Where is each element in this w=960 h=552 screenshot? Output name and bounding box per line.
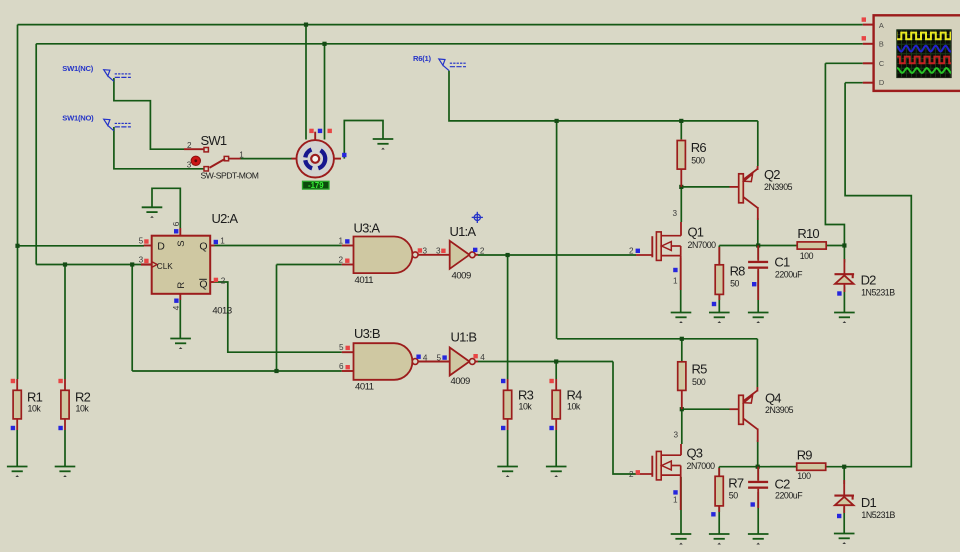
svg-text:10k: 10k [28, 404, 42, 414]
svg-text:500: 500 [691, 156, 705, 166]
svg-text:D2: D2 [861, 272, 877, 287]
svg-text:R8: R8 [730, 264, 746, 279]
svg-text:1: 1 [673, 495, 678, 504]
svg-text:Q: Q [199, 240, 207, 252]
svg-text:4009: 4009 [452, 270, 472, 281]
svg-text:4013: 4013 [212, 305, 232, 316]
svg-text:SW1(NC): SW1(NC) [62, 64, 93, 73]
svg-text:50: 50 [729, 490, 738, 500]
svg-text:1: 1 [239, 151, 244, 160]
svg-text:R4: R4 [567, 388, 583, 403]
svg-text:500: 500 [692, 377, 706, 387]
svg-text:10k: 10k [76, 404, 90, 414]
svg-text:2: 2 [629, 246, 634, 255]
svg-text:R10: R10 [797, 226, 819, 241]
svg-text:5: 5 [339, 343, 344, 352]
svg-text:1N5231B: 1N5231B [861, 510, 895, 520]
svg-text:Q4: Q4 [765, 391, 781, 406]
svg-text:U3:A: U3:A [354, 221, 381, 236]
svg-text:C1: C1 [774, 255, 790, 270]
svg-text:4011: 4011 [355, 275, 374, 286]
svg-text:SW-SPDT-MOM: SW-SPDT-MOM [201, 171, 259, 181]
svg-text:2N3905: 2N3905 [765, 405, 794, 415]
svg-text:R5: R5 [692, 362, 708, 377]
svg-text:50: 50 [730, 279, 739, 289]
svg-text:D: D [879, 78, 884, 87]
svg-text:2: 2 [338, 255, 343, 264]
svg-text:Q3: Q3 [687, 446, 703, 461]
svg-text:Q2: Q2 [764, 167, 780, 182]
svg-text:3: 3 [673, 430, 678, 439]
svg-text:R2: R2 [75, 390, 91, 405]
svg-text:3: 3 [187, 161, 192, 170]
svg-text:B: B [879, 40, 884, 49]
svg-text:100: 100 [797, 471, 811, 481]
svg-text:R1: R1 [27, 390, 43, 405]
svg-text:R6(1): R6(1) [413, 54, 431, 63]
svg-text:5: 5 [139, 236, 144, 245]
svg-text:C2: C2 [775, 476, 791, 491]
svg-text:2N7000: 2N7000 [688, 240, 717, 250]
svg-text:R9: R9 [797, 447, 813, 462]
svg-text:6: 6 [172, 221, 181, 226]
svg-text:3: 3 [423, 247, 428, 256]
svg-text:2200uF: 2200uF [775, 269, 803, 279]
svg-text:1N5231B: 1N5231B [861, 288, 895, 298]
svg-text:A: A [879, 21, 884, 30]
svg-text:S: S [176, 241, 187, 247]
svg-text:C: C [879, 59, 885, 68]
svg-text:-179: -179 [308, 181, 324, 190]
svg-text:U3:B: U3:B [354, 326, 380, 341]
svg-text:4: 4 [423, 353, 428, 362]
svg-text:R: R [176, 282, 187, 289]
svg-text:3: 3 [672, 209, 677, 218]
svg-text:1: 1 [673, 277, 678, 286]
svg-text:D1: D1 [861, 495, 877, 510]
svg-text:R6: R6 [691, 140, 707, 155]
svg-text:10k: 10k [519, 402, 533, 412]
svg-text:U2:A: U2:A [212, 211, 239, 226]
svg-text:3: 3 [139, 255, 144, 264]
svg-text:2200uF: 2200uF [775, 491, 803, 501]
svg-text:R7: R7 [728, 476, 744, 491]
svg-text:2N7000: 2N7000 [687, 461, 716, 471]
svg-text:SW1(NO): SW1(NO) [62, 114, 94, 123]
svg-text:Q1: Q1 [688, 225, 704, 240]
svg-text:1: 1 [338, 236, 343, 245]
svg-text:2: 2 [221, 276, 226, 285]
svg-text:2: 2 [187, 141, 192, 150]
svg-text:4: 4 [480, 353, 485, 362]
svg-text:10k: 10k [567, 402, 581, 412]
svg-text:4009: 4009 [451, 376, 471, 387]
svg-text:2: 2 [480, 246, 485, 255]
svg-text:5: 5 [436, 353, 441, 362]
svg-text:2: 2 [629, 470, 634, 479]
svg-text:2N3905: 2N3905 [764, 182, 793, 192]
svg-text:SW1: SW1 [201, 133, 227, 148]
svg-text:U1:A: U1:A [450, 224, 477, 239]
svg-text:R3: R3 [518, 388, 534, 403]
svg-text:6: 6 [339, 362, 344, 371]
svg-text:1: 1 [220, 236, 225, 245]
svg-text:CLK: CLK [157, 262, 173, 271]
svg-text:U1:B: U1:B [451, 330, 477, 345]
svg-text:100: 100 [800, 251, 814, 261]
svg-text:Q: Q [199, 278, 207, 290]
svg-text:4011: 4011 [355, 382, 374, 393]
svg-text:3: 3 [436, 247, 441, 256]
svg-text:D: D [157, 240, 165, 252]
